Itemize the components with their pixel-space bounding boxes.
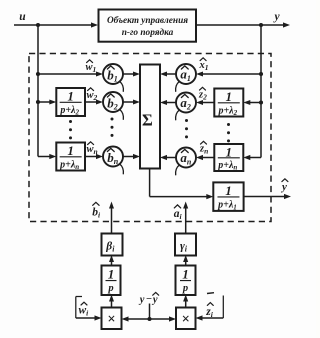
svg-text:Объект управления: Объект управления	[107, 15, 188, 26]
svg-text:1: 1	[108, 267, 115, 282]
svg-text:u: u	[19, 11, 26, 23]
svg-text:1: 1	[226, 89, 233, 104]
svg-text:Σ: Σ	[142, 110, 153, 129]
svg-text:n-го порядка: n-го порядка	[122, 27, 174, 38]
svg-text:1: 1	[225, 183, 232, 198]
svg-text:1: 1	[67, 89, 74, 104]
svg-text:y: y	[138, 295, 145, 306]
svg-text:×: ×	[107, 311, 115, 327]
svg-text:y: y	[280, 181, 287, 193]
svg-text:y: y	[151, 295, 158, 306]
svg-text:×: ×	[182, 311, 190, 327]
svg-text:y: y	[272, 11, 280, 23]
svg-text:1: 1	[182, 267, 189, 282]
svg-text:p: p	[107, 283, 113, 294]
svg-text:p: p	[182, 283, 188, 294]
svg-text:−: −	[146, 294, 152, 305]
svg-text:1: 1	[67, 143, 74, 158]
